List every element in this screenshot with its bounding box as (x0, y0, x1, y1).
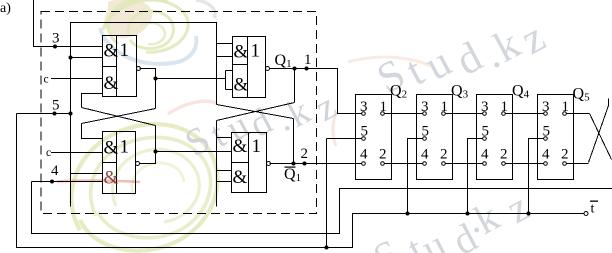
wire: jog vertical feeding D1.2 lower cell (225, 71, 227, 90)
wire: vertical from diagonal down to D1.3 output junction (155, 126, 157, 152)
wire: T4 output2 row (567, 163, 589, 165)
wire: Q1 junction down to cross (294, 69, 296, 103)
svg-text:&: & (104, 73, 119, 94)
wire: D1.3 feedback up into D1.1 lower input (82, 94, 103, 108)
svg-text:3: 3 (481, 99, 489, 115)
svg-text:4: 4 (360, 147, 368, 163)
svg-text:2: 2 (379, 147, 387, 163)
wire: FF1 input 5 horizontal (327, 138, 362, 140)
svg-text:5: 5 (52, 98, 60, 114)
svg-text:1: 1 (380, 99, 388, 115)
T3 terminal circle pin5 (483, 137, 487, 141)
node: feedback to D1.1 input (69, 56, 73, 60)
wire: Qbar1 output line from D1.4 to FF1 input 4 (270, 163, 362, 165)
wire: T1 output1 to T2 input3 (385, 113, 423, 115)
svg-text:3: 3 (52, 31, 60, 47)
T3 terminal circle pin1 (502, 112, 506, 116)
wire: input c (upper) into gate D1.1 (51, 78, 103, 80)
wire: cross diagonal from Q1 down to D1.4 bracket (217, 103, 295, 121)
wire: Q5 cross diagonal a (590, 114, 612, 160)
node: D1.1 output junction (154, 77, 158, 81)
svg-text:4: 4 (542, 147, 550, 163)
svg-text:1: 1 (120, 137, 130, 158)
flip-flop T4 box (538, 95, 574, 180)
node: Qbar1 cross junction (292, 162, 296, 166)
gate block D1.2 upper-right AND-NOR box (233, 37, 266, 98)
svg-text:1: 1 (501, 99, 509, 115)
wire: T2 output2 to T3 input4 (446, 163, 483, 165)
gate block D1.3 lower-left AND-NOR box (103, 132, 136, 194)
svg-text:&: & (233, 167, 248, 188)
flip-flop T3 box (477, 95, 513, 180)
wire: T4 input5 riser from clock bus (529, 139, 544, 214)
gate D1.4 column divider (248, 133, 250, 193)
wire: down and into D1.3 first input (82, 124, 103, 139)
node: FF1 input5 on clock bus (325, 246, 329, 250)
node: T2 input5 on clock bus (406, 212, 410, 216)
gate D1.3 cell divider (103, 162, 117, 164)
gate D1.2 output inversion circle (266, 67, 270, 71)
wire: input c (lower) into gate D1.3 (51, 152, 103, 154)
svg-text:1: 1 (441, 99, 449, 115)
T2 terminal circle pin5 (423, 137, 427, 141)
wire: clock/feedback vertical x=70.5 with top feedback line to box2 bracket (71, 23, 217, 207)
wire: stub from x=70.5 into gate D1.1 second input (71, 57, 103, 59)
wire: cross diagonal D1.1-output to D1.3 (82, 109, 156, 124)
wire: vertical down to Qbar1 line junction (293, 119, 295, 164)
wire: stub into D1.4 fourth input (217, 181, 232, 183)
wire: T1 output2 to T2 input4 (385, 163, 423, 165)
wire: pin4 bus down-left, along bottom, rising to row under flip-flop chain (32, 182, 612, 234)
wire: stub bracket into D1.2 input b (217, 56, 233, 58)
overbar of Qbar1 (285, 167, 296, 168)
pin 4 marker dot (50, 180, 54, 184)
svg-text:2: 2 (500, 147, 508, 163)
T4 terminal circle pin5 (544, 137, 548, 141)
svg-text:5: 5 (361, 124, 369, 140)
T2 terminal circle pin2 (442, 162, 446, 166)
wire: stub into D1.4 third input (217, 170, 232, 172)
wire: Q5 cross top stub (608, 99, 610, 106)
wire: cross diagonal D1.3-output to D1.1 (82, 108, 156, 126)
svg-text:&: & (104, 41, 119, 62)
svg-text:3: 3 (421, 99, 429, 115)
watermark text row 1 (top right) Stud.kz (370, 13, 553, 102)
svg-text:&: & (233, 136, 248, 157)
T2 terminal circle pin4 (423, 162, 427, 166)
svg-text:4: 4 (421, 147, 429, 163)
wire: row from D1.1 output junction to jog at x=225.5 (156, 78, 226, 80)
wire: input pin 3 feed from top edge (34, 0, 103, 47)
svg-text:3: 3 (542, 99, 550, 115)
T1 terminal circle pin3 (362, 112, 366, 116)
pin 5 marker dot (53, 112, 57, 116)
svg-text:1: 1 (562, 99, 570, 115)
wire: clock bus from pin5 down left edge and along bottom to t-bus riser (17, 114, 585, 248)
T1 terminal circle pin2 (381, 162, 385, 166)
wire: stub bracket into D1.2 input a (217, 43, 233, 45)
T2 terminal circle pin1 (442, 112, 446, 116)
wire: T3 output1 to T4 input3 (506, 113, 544, 115)
svg-text:&: & (234, 75, 249, 96)
svg-text:c: c (44, 74, 49, 86)
node: D1.3 output junction (154, 150, 158, 154)
svg-text:&: & (104, 138, 119, 159)
wire: stub into D1.4 first input (217, 137, 232, 139)
gate D1.2 column divider (247, 37, 249, 98)
gate D1.4 output inversion circle (267, 162, 271, 166)
gate block D1.4 lower-right AND-NOR box (232, 133, 267, 193)
wire: D1.3 output row to gate D1.4 (156, 151, 232, 153)
T3 terminal circle pin3 (483, 112, 487, 116)
wire: stub into D1.2 input d (226, 89, 233, 91)
wire: input pin 4 row (32, 181, 103, 183)
node: clock vertical at pin5 row (69, 112, 73, 116)
svg-text:5: 5 (543, 124, 551, 140)
wire: D1.3 output up to junction (140, 152, 156, 164)
pin 3 marker dot (53, 45, 57, 49)
dashed IC boundary box DD1 (41, 12, 317, 214)
wire: T3 output2 to T4 input4 (506, 163, 544, 165)
pin 2 marker dot (303, 162, 307, 166)
gate D1.4 cell divider (232, 162, 249, 164)
svg-text:4: 4 (481, 147, 489, 163)
flip-flop T1 box (356, 95, 392, 180)
svg-text:4: 4 (51, 163, 59, 179)
T4 terminal circle pin4 (544, 162, 548, 166)
T1 terminal circle pin4 (362, 162, 366, 166)
wire: input pin 5 row (17, 113, 71, 115)
wire: T4 output1 to Q5 cross (567, 113, 590, 115)
watermark logo centre-left swirl (57, 57, 430, 251)
svg-text:3: 3 (360, 99, 368, 115)
wire: D1.1 output row to D1.2 with jog (140, 69, 156, 79)
gate D1.3 output inversion circle (136, 162, 140, 166)
node: Q1 cross junction (293, 67, 297, 71)
gate D1.1 cell divider (103, 66, 117, 68)
wire: Q1 output line from D1.2 to FF1 input 3 (270, 69, 362, 114)
op-amp/gate block D1.1 upper-left AND-NOR box (103, 36, 137, 97)
T4 terminal circle pin3 (544, 112, 548, 116)
watermark text row 3 (bottom) Stud.kz (366, 183, 537, 253)
T4 terminal circle pin1 (563, 112, 567, 116)
watermark text row 2 (centre) Stud.kz (179, 85, 344, 165)
overbar of t (590, 201, 598, 202)
svg-text:a): a) (0, 1, 11, 16)
wire: Q5 cross diagonal b (589, 106, 609, 163)
T1 terminal circle pin1 (381, 112, 385, 116)
svg-text:1: 1 (120, 40, 130, 61)
wire: stub from clock vertical into D1.3 third input (71, 173, 103, 175)
wire: T2 input5 riser from clock bus (408, 139, 423, 214)
gate D1.1 output inversion circle (137, 67, 141, 71)
T2 terminal circle pin3 (423, 112, 427, 116)
wire: stub into D1.2 input c (226, 70, 233, 72)
svg-text:c: c (46, 147, 51, 159)
svg-text:t: t (591, 202, 595, 217)
T3 terminal circle pin4 (483, 162, 487, 166)
pin 1 marker dot (305, 67, 309, 71)
wire: cross diagonal from D1.2 bracket to Qbar junction (217, 105, 294, 119)
svg-text:5: 5 (422, 124, 430, 140)
svg-text:&: & (104, 168, 119, 189)
svg-text:1: 1 (252, 136, 262, 157)
wire: FF1 input 5 riser from clock bus (326, 139, 328, 248)
svg-text:2: 2 (440, 147, 448, 163)
svg-text:&: & (234, 42, 249, 63)
wire: T2 output1 to T3 input3 (446, 113, 483, 115)
wire: D1.1 output down to cross (155, 79, 157, 109)
T1 terminal circle pin5 (362, 137, 366, 141)
svg-text:1: 1 (251, 41, 261, 62)
wire: T3 input5 riser from clock bus (468, 139, 483, 214)
gate D1.2 cell divider (233, 64, 248, 66)
terminal circle t-bar clock input (584, 212, 588, 216)
node: T4 input5 on clock bus (527, 212, 531, 216)
flip-flop T2 box (417, 95, 453, 180)
node: T3 input5 on clock bus (466, 212, 470, 216)
gate D1.3 column divider (116, 132, 118, 194)
svg-text:1: 1 (304, 52, 312, 68)
svg-text:2: 2 (301, 146, 309, 162)
wire: D1.4 left bracket vertical (216, 121, 218, 207)
svg-text:2: 2 (561, 147, 569, 163)
svg-text:5: 5 (482, 124, 490, 140)
T4 terminal circle pin2 (563, 162, 567, 166)
watermark logo top-left swirl (100, 0, 215, 64)
gate D1.1 column divider (116, 36, 118, 97)
T3 terminal circle pin2 (502, 162, 506, 166)
